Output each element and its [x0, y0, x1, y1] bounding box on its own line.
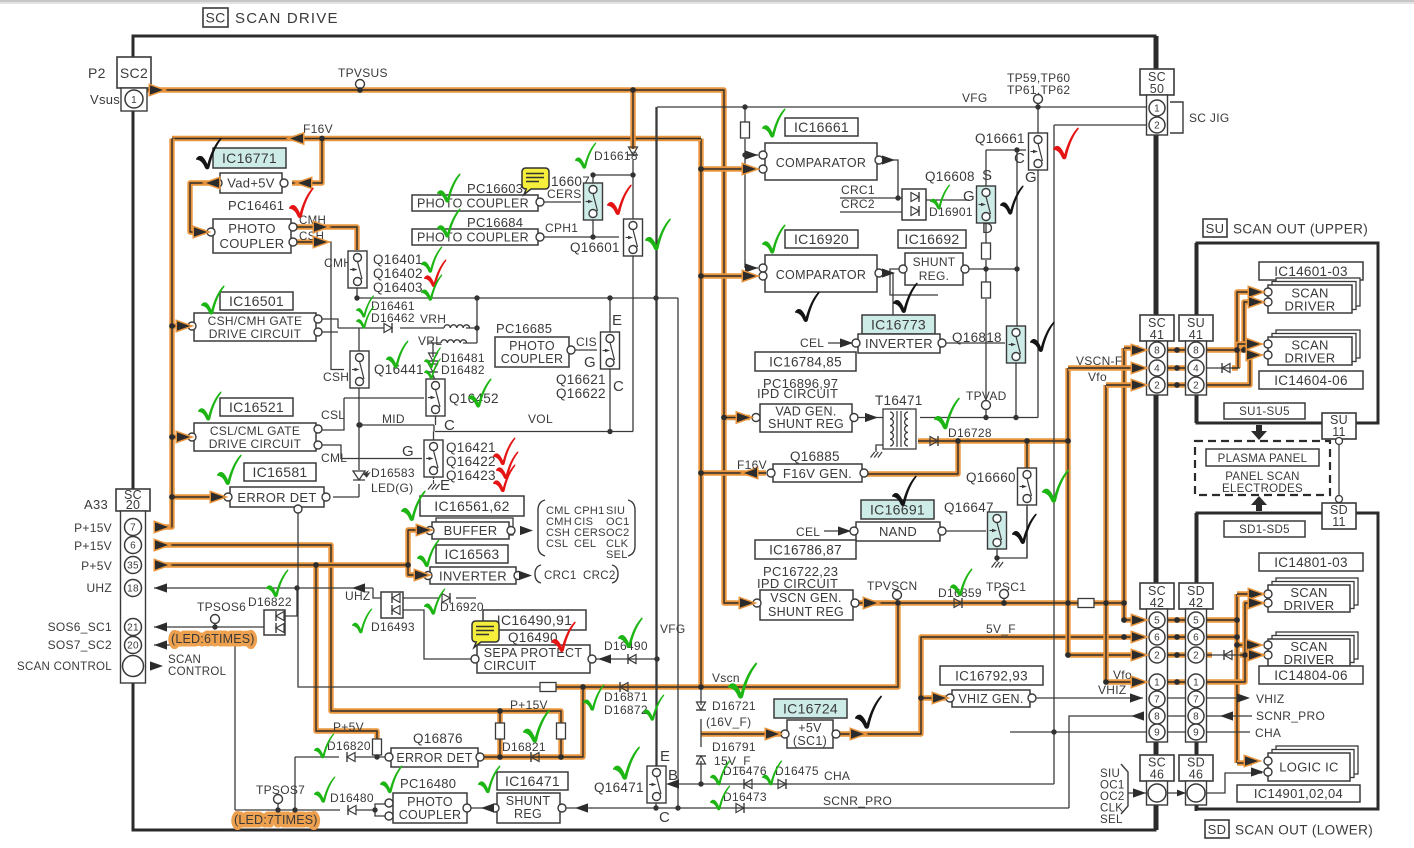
svg-text:TPVSCN: TPVSCN	[867, 579, 917, 593]
check D16920	[424, 588, 445, 614]
junction	[474, 295, 479, 300]
block VHIZ GEN	[952, 690, 1030, 707]
junction	[918, 695, 924, 701]
connector SC42 pin 1	[1149, 674, 1165, 690]
svg-text:D16480: D16480	[330, 791, 374, 805]
wire Q16471 E	[655, 107, 657, 768]
svg-text:Q16608: Q16608	[925, 169, 975, 184]
arrow buffer in	[417, 525, 430, 534]
ic IC16784 label	[755, 352, 856, 371]
wire shunt reg out	[966, 268, 1017, 270]
junction	[357, 87, 363, 93]
junction	[1121, 600, 1127, 606]
arrow inverter2 in	[840, 338, 853, 347]
wire Q16452 mid line	[318, 398, 424, 430]
svg-text:1: 1	[1193, 678, 1199, 689]
inductor VRH	[444, 325, 470, 328]
junction	[319, 136, 325, 142]
wire pin6 rail	[158, 545, 561, 726]
block BUFFER	[432, 522, 509, 539]
svg-text:D16476: D16476	[723, 764, 767, 778]
svg-text:Q16402: Q16402	[373, 266, 423, 281]
wire VAD to transformer	[858, 417, 884, 419]
transistor Q16452 switch	[426, 379, 445, 416]
pin 5vsc1 out	[832, 730, 840, 738]
wire Vscn branch to error det	[478, 687, 583, 757]
svg-text:TPSOS6: TPSOS6	[197, 600, 246, 614]
junction	[955, 438, 961, 444]
arrow Vad left	[206, 178, 219, 187]
svg-text:F16V: F16V	[303, 122, 333, 136]
check IC16920	[762, 225, 786, 254]
check IC16661	[762, 109, 786, 138]
junction	[169, 494, 175, 500]
frame SC SCAN DRIVE	[133, 36, 1155, 830]
pin inv2 out	[938, 339, 946, 347]
pin shunt2 out	[558, 804, 566, 812]
pin gate2 o1	[314, 425, 322, 433]
wire CHA rail	[668, 783, 1054, 785]
wire comparator2 feed	[701, 273, 750, 278]
svg-text:VHIZ: VHIZ	[1098, 683, 1127, 697]
svg-text:IC14804-06: IC14804-06	[1274, 668, 1348, 683]
svg-text:P+5V: P+5V	[81, 559, 112, 573]
wire VHIZ line	[1036, 697, 1143, 699]
svg-text:D16473: D16473	[723, 790, 767, 804]
wire pin21 line	[154, 626, 264, 628]
ic IC16471 label	[497, 772, 568, 790]
wire TPVSUS stem	[359, 88, 361, 90]
svg-text:Q16647: Q16647	[944, 500, 994, 515]
svg-text:6: 6	[1154, 633, 1160, 644]
photo coupler PC16480	[393, 793, 467, 823]
connector SC42 pin column	[1147, 609, 1168, 742]
wire Q16608 D chain	[985, 217, 987, 418]
pin PC16603 out	[536, 198, 544, 206]
svg-text:IC16771: IC16771	[222, 150, 277, 166]
arrow pin6	[155, 540, 168, 549]
wire SIU arrow line	[1128, 792, 1146, 794]
junction	[275, 807, 280, 812]
inductor VRL	[441, 340, 467, 343]
svg-text:35: 35	[127, 561, 139, 572]
wire comp2 out	[881, 273, 893, 331]
check IC16771	[196, 138, 222, 170]
junction sd pin2	[1242, 652, 1248, 658]
pin errordet right	[322, 493, 330, 501]
wire comp2 pin1 feed	[745, 267, 758, 269]
ic IC16692 label	[898, 230, 966, 248]
junction	[1103, 600, 1109, 606]
wire comp1 pin1 feed	[745, 154, 758, 156]
check Q16452	[468, 379, 492, 408]
junction	[675, 805, 680, 810]
wire CHA link	[1167, 731, 1187, 733]
svg-text:VFG: VFG	[660, 622, 686, 636]
svg-text:6: 6	[1193, 633, 1199, 644]
junction	[698, 684, 704, 690]
svg-text:INVERTER: INVERTER	[865, 336, 933, 351]
wire F16V bus	[698, 139, 703, 688]
svg-text:21: 21	[127, 623, 139, 634]
svg-text:E: E	[612, 312, 622, 329]
pin sd4 b	[1264, 651, 1272, 659]
svg-text:Q16621: Q16621	[556, 372, 606, 387]
check Q16647	[1012, 514, 1037, 544]
pin comp1 in1	[759, 151, 767, 159]
svg-text:SEPA PROTECT: SEPA PROTECT	[484, 646, 583, 660]
diode D16482	[428, 364, 438, 372]
wire SCNR riser	[1069, 716, 1142, 808]
wire CSH out stub	[295, 239, 322, 244]
pin 5vsc1 in	[781, 730, 789, 738]
check IC16563	[417, 540, 439, 568]
svg-text:2: 2	[1154, 651, 1160, 662]
block +5V SC1	[787, 720, 833, 748]
wire F16V GEN link	[701, 470, 766, 475]
arrow siu	[1133, 788, 1146, 797]
connector SC42 pin 8	[1149, 708, 1165, 724]
svg-text:41: 41	[1150, 328, 1165, 342]
transistor Q16660 switch	[1018, 468, 1037, 505]
svg-text:46: 46	[1150, 768, 1165, 782]
wire +5V SC1 out	[838, 637, 1139, 734]
junction	[1174, 365, 1180, 371]
junction	[497, 754, 503, 760]
connector SC42 label box	[1140, 583, 1174, 609]
svg-text:IC16501: IC16501	[229, 293, 284, 309]
check D16821	[523, 710, 550, 743]
pin sepa right	[588, 655, 596, 663]
resistor R16876a	[496, 723, 505, 739]
wire scan driver1 pin2 feed	[1244, 302, 1258, 350]
connector SC42 pin 5	[1149, 612, 1165, 628]
svg-text:PHOTO COUPLER: PHOTO COUPLER	[417, 231, 529, 245]
check D16820	[314, 733, 334, 758]
wire scan driver2 pin1 feed	[1232, 344, 1256, 368]
check Q16423	[493, 465, 515, 493]
arrow pin35	[155, 560, 168, 569]
wire D16481 riser	[433, 343, 436, 382]
svg-text:COMPARATOR: COMPARATOR	[776, 268, 867, 282]
pin comp2 in2	[759, 272, 767, 280]
svg-text:SHUNT REG: SHUNT REG	[768, 417, 844, 431]
connector SD42 pin 6	[1188, 629, 1204, 645]
connector SC46 pin	[1148, 784, 1166, 802]
check IC16724	[855, 696, 882, 729]
svg-text:IC16784,85: IC16784,85	[769, 354, 842, 369]
svg-text:IC16521: IC16521	[229, 399, 284, 415]
check Q16660	[1042, 470, 1069, 503]
diode D16822b	[276, 623, 284, 633]
svg-text:D16820: D16820	[327, 739, 371, 753]
label SD1-SD5	[1224, 521, 1305, 537]
check IC16692	[893, 283, 918, 313]
pin errordet in	[224, 493, 232, 501]
svg-text:Vad+5V: Vad+5V	[227, 176, 274, 191]
junction	[294, 585, 299, 590]
svg-text:(LED:6TIMES): (LED:6TIMES)	[171, 632, 255, 646]
svg-text:IC16563: IC16563	[444, 546, 499, 562]
svg-text:8: 8	[1193, 346, 1199, 357]
block shunt reg IC16692	[905, 253, 963, 285]
arrow inverter out	[519, 571, 532, 580]
frame SU SCAN OUT	[1197, 243, 1378, 423]
diode pack D16493	[381, 592, 403, 618]
arrow to panel	[1251, 425, 1267, 440]
block SEPA PROTECT	[477, 645, 590, 673]
connector SC42 pin 9	[1149, 724, 1165, 740]
svg-text:CONTROL: CONTROL	[168, 666, 227, 678]
junction	[580, 684, 586, 690]
wire left bus	[158, 139, 172, 528]
arrow sd2a	[1247, 339, 1260, 348]
diode D16901b	[911, 206, 919, 216]
junction	[497, 708, 503, 714]
wire gate pin stubs	[318, 319, 338, 332]
arrow SOS6	[154, 622, 167, 631]
ic IC16724 box	[774, 699, 847, 718]
pin gate1 in	[188, 322, 196, 330]
wire D16820 riser	[294, 757, 296, 810]
svg-text:D16583: D16583	[371, 466, 415, 480]
svg-text:SCAN OUT (UPPER): SCAN OUT (UPPER)	[1233, 222, 1368, 237]
wire Q16608 S riser	[985, 150, 987, 186]
junction	[372, 807, 377, 812]
junction	[1051, 729, 1056, 734]
arrow vhiz pin7	[1130, 693, 1143, 702]
connector SC20 column	[121, 511, 146, 683]
svg-text:SHUNT: SHUNT	[506, 794, 551, 808]
svg-text:CEL: CEL	[800, 336, 824, 350]
svg-text:CRC1: CRC1	[841, 183, 875, 197]
svg-text:LOGIC IC: LOGIC IC	[1279, 760, 1338, 775]
svg-text:IC14604-06: IC14604-06	[1274, 373, 1348, 388]
junction	[313, 562, 319, 568]
connector SC42 pin 7	[1149, 691, 1165, 707]
diode D16490	[628, 654, 636, 664]
connector SD42 pin column	[1186, 609, 1207, 742]
pin Vad right	[280, 179, 288, 187]
arrow buffer out	[520, 526, 533, 535]
ic IC14804 label	[1259, 666, 1363, 684]
note icon Q16490	[472, 621, 499, 648]
pin SU11	[1336, 438, 1343, 445]
svg-text:2: 2	[1154, 381, 1160, 392]
transformer T16471	[883, 409, 916, 449]
pin pc16480 b	[385, 812, 393, 820]
svg-text:SC2: SC2	[120, 65, 148, 81]
svg-text:C: C	[659, 809, 670, 826]
svg-text:SU: SU	[1206, 221, 1225, 236]
svg-text:DRIVE CIRCUIT: DRIVE CIRCUIT	[209, 437, 302, 451]
arrow vadgen in	[737, 413, 750, 422]
junction	[1234, 347, 1240, 353]
wire Q16471 C stub	[655, 801, 657, 808]
junction	[983, 415, 988, 420]
wire Vscn bus right	[1121, 348, 1126, 620]
junction	[292, 807, 297, 812]
check PC16603	[437, 174, 461, 203]
svg-text:41: 41	[1189, 328, 1204, 342]
arrow vhiz right	[1237, 693, 1250, 702]
pin vscngen out	[851, 599, 859, 607]
wire Q16452 bottom	[435, 414, 437, 426]
check Q16608	[1000, 186, 1024, 215]
arrow CMH out	[314, 222, 327, 231]
svg-text:P+15V: P+15V	[74, 539, 112, 553]
svg-text:CSL: CSL	[546, 538, 568, 550]
plasma panel label box	[1206, 449, 1319, 466]
wire shunt reg loop	[890, 269, 938, 295]
junction	[653, 295, 658, 300]
pin comp1 out	[875, 156, 883, 164]
svg-text:D16728: D16728	[948, 426, 992, 440]
plasma panel dashed box	[1195, 441, 1330, 495]
check D16476	[710, 760, 730, 785]
arrow sc41 pin8	[1132, 345, 1145, 354]
svg-text:SOS7_SC2: SOS7_SC2	[48, 638, 112, 652]
junction	[1174, 382, 1180, 388]
wire Q16607 bottom	[592, 218, 594, 237]
svg-text:SHUNT REG: SHUNT REG	[768, 605, 844, 619]
svg-text:SC: SC	[205, 10, 225, 26]
svg-text:COUPLER: COUPLER	[501, 352, 564, 366]
arrow photo coupler in	[194, 227, 207, 236]
check IC16521	[198, 392, 222, 421]
transistor Q16441 switch	[350, 351, 369, 388]
junction	[590, 172, 595, 177]
connector SD42 pin 1	[1188, 674, 1204, 690]
svg-text:PANEL SCAN: PANEL SCAN	[1225, 471, 1300, 483]
regulator Vad+5V	[220, 173, 282, 193]
connector SD42 pin 2	[1188, 647, 1204, 663]
wire D16493 out2	[403, 610, 471, 659]
wire Vscn rail	[556, 603, 898, 687]
svg-text:D16872: D16872	[604, 703, 648, 717]
photo coupler PC16603	[412, 195, 538, 211]
arrow inverter in	[415, 570, 428, 579]
wire MID line	[360, 425, 434, 432]
arrow UHZ	[154, 583, 167, 592]
resistor R16608b	[982, 282, 991, 298]
wire CML G line	[318, 445, 422, 459]
testpoint TPSC1	[1000, 590, 1009, 599]
wire buffer feed	[408, 530, 426, 565]
scan driver L2 shadow2	[1276, 632, 1358, 659]
wire pin8 link	[1167, 347, 1187, 352]
connector SC50 pin column	[1147, 95, 1168, 135]
transistor Q16421-23 switch	[424, 440, 443, 477]
pin sd1 b	[1264, 298, 1272, 306]
svg-text:IC16920: IC16920	[794, 231, 849, 247]
connector SD46 pin	[1187, 784, 1205, 802]
check D16462	[356, 306, 374, 328]
check Q16607	[607, 185, 632, 215]
arrow vadgen out	[865, 413, 878, 422]
svg-text:IC16691: IC16691	[870, 502, 925, 518]
wire transformer ground	[876, 445, 884, 450]
check D16872	[643, 694, 664, 720]
note icon 16607	[522, 168, 549, 195]
junction	[1234, 617, 1240, 623]
wire Q16403 bottom	[356, 287, 358, 298]
transistor Q16601 switch	[624, 219, 643, 256]
svg-text:PHOTO: PHOTO	[228, 221, 276, 236]
resistor comp chain	[741, 122, 750, 138]
svg-text:NAND: NAND	[879, 524, 917, 539]
block BUFFER shadow	[436, 518, 513, 535]
connector SC20 label box	[116, 489, 150, 511]
svg-text:SD: SD	[1208, 822, 1227, 837]
wire nand out	[942, 530, 986, 532]
arrow comp1 out	[882, 155, 895, 164]
svg-text:Q16421: Q16421	[446, 440, 496, 455]
svg-text:D16721: D16721	[712, 699, 756, 713]
testpoint TPVAD	[982, 401, 991, 410]
wire SD46 link	[1165, 792, 1186, 794]
svg-text:PHOTO: PHOTO	[407, 795, 453, 809]
connector SU41 pin 2	[1188, 377, 1204, 393]
ic IC16501 label	[220, 292, 293, 310]
check Q16403	[421, 274, 442, 300]
wire pin6 link	[1167, 634, 1187, 639]
svg-text:2: 2	[1154, 121, 1160, 132]
wire error det in	[333, 496, 359, 498]
junction	[1001, 600, 1007, 606]
junction	[356, 422, 361, 427]
wire TPVSCN rail	[857, 600, 1124, 605]
svg-text:COUPLER: COUPLER	[399, 808, 462, 822]
wire SU41 pin4 line	[1206, 367, 1240, 369]
check Q16421	[493, 438, 515, 466]
svg-text:P2: P2	[88, 65, 106, 81]
logic ic	[1268, 753, 1350, 781]
svg-text:+5V: +5V	[798, 721, 822, 735]
diode D16481	[428, 353, 438, 361]
svg-text:COMPARATOR: COMPARATOR	[776, 156, 867, 170]
svg-text:IC16661: IC16661	[794, 119, 849, 135]
arrow pin7	[155, 522, 168, 531]
arrow sd4a	[1247, 640, 1260, 649]
block CSH/CMH gate drive	[194, 313, 316, 341]
svg-text:Q16661: Q16661	[975, 131, 1025, 146]
junction	[405, 562, 411, 568]
wire Vscn thin segment	[557, 686, 560, 688]
junction	[1121, 634, 1127, 640]
wire Q16661 top	[1037, 107, 1039, 133]
svg-text:SHUNT: SHUNT	[913, 255, 956, 269]
svg-text:Q16422: Q16422	[446, 454, 496, 469]
junction	[357, 422, 362, 427]
svg-text:IC16581: IC16581	[252, 464, 307, 480]
junction	[742, 104, 747, 109]
arrow UHZ2	[352, 583, 365, 592]
arrow SOS7	[154, 640, 167, 649]
wire Vsus rail	[143, 90, 750, 603]
transistor Q16607 switch	[584, 183, 603, 220]
wire Q16661 bottom	[1037, 166, 1039, 418]
junction	[1174, 652, 1180, 658]
junction	[1014, 147, 1019, 152]
connector SU11 box	[1322, 413, 1356, 439]
wire nand in	[824, 530, 853, 532]
check D16461	[356, 295, 374, 317]
wire SC42 pin1 feed	[1106, 679, 1139, 684]
wire Q16818 bottom	[1015, 359, 1017, 418]
arrow scnr right	[1220, 711, 1233, 720]
pin inv2 in	[852, 339, 860, 347]
